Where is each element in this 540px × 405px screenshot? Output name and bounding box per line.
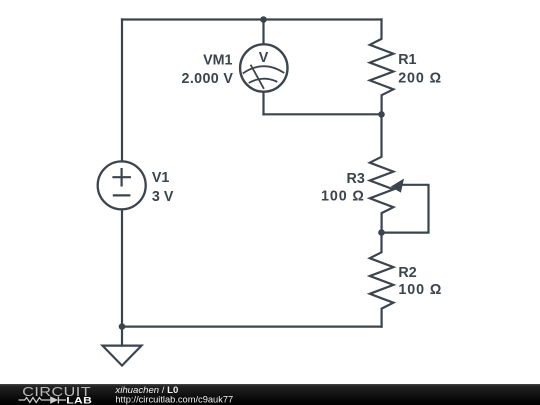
svg-text:VM1: VM1: [203, 52, 232, 68]
voltage source V1 circle: [98, 161, 146, 209]
V1 plus sign: [114, 169, 130, 185]
voltmeter VM1 circle: [240, 44, 287, 91]
svg-text:100 Ω: 100 Ω: [321, 189, 365, 205]
svg-text:R3: R3: [347, 171, 365, 187]
ground triangle: [103, 346, 142, 366]
VM1 needle: [251, 66, 264, 89]
svg-text:R2: R2: [398, 265, 416, 281]
node dot top (VM1 tap): [260, 16, 267, 23]
wire top rail: [122, 18, 382, 20]
svg-text:100 Ω: 100 Ω: [398, 282, 442, 298]
wire bottom rail: [122, 326, 382, 328]
resistor R2: [370, 233, 394, 327]
wire VM1 top lead: [262, 20, 264, 45]
V1 minus sign: [114, 194, 129, 196]
VM1 meter upper arc: [244, 66, 284, 73]
wire R3 wiper loop: [385, 185, 429, 233]
node dot ground: [119, 323, 126, 330]
logo diode triangle: [50, 396, 58, 404]
footer bar: [0, 384, 540, 405]
svg-text:R1: R1: [398, 52, 416, 68]
wire left rail upper: [121, 20, 123, 162]
logo resistor squiggle and diode: [19, 397, 67, 404]
wire VM1 bottom lead: [262, 92, 264, 115]
node dot between R3 and R2: [378, 229, 385, 236]
wire VM1 to node B: [264, 113, 382, 115]
svg-text:2.000 V: 2.000 V: [182, 71, 234, 87]
VM1 meter lower arc: [250, 79, 277, 83]
svg-text:V: V: [259, 50, 269, 66]
svg-text:http://circuitlab.com/c9auk77: http://circuitlab.com/c9auk77: [115, 395, 233, 405]
svg-text:200 Ω: 200 Ω: [398, 71, 442, 87]
resistor R1: [370, 20, 394, 115]
svg-text:LAB: LAB: [66, 395, 92, 405]
wire left rail lower: [121, 210, 123, 327]
R3 wiper arrowhead: [391, 179, 404, 193]
svg-text:V1: V1: [152, 170, 170, 186]
ground stem: [121, 327, 123, 346]
node dot between R1 and R3: [378, 111, 385, 118]
svg-text:3 V: 3 V: [152, 189, 174, 205]
potentiometer R3 body: [370, 114, 394, 232]
